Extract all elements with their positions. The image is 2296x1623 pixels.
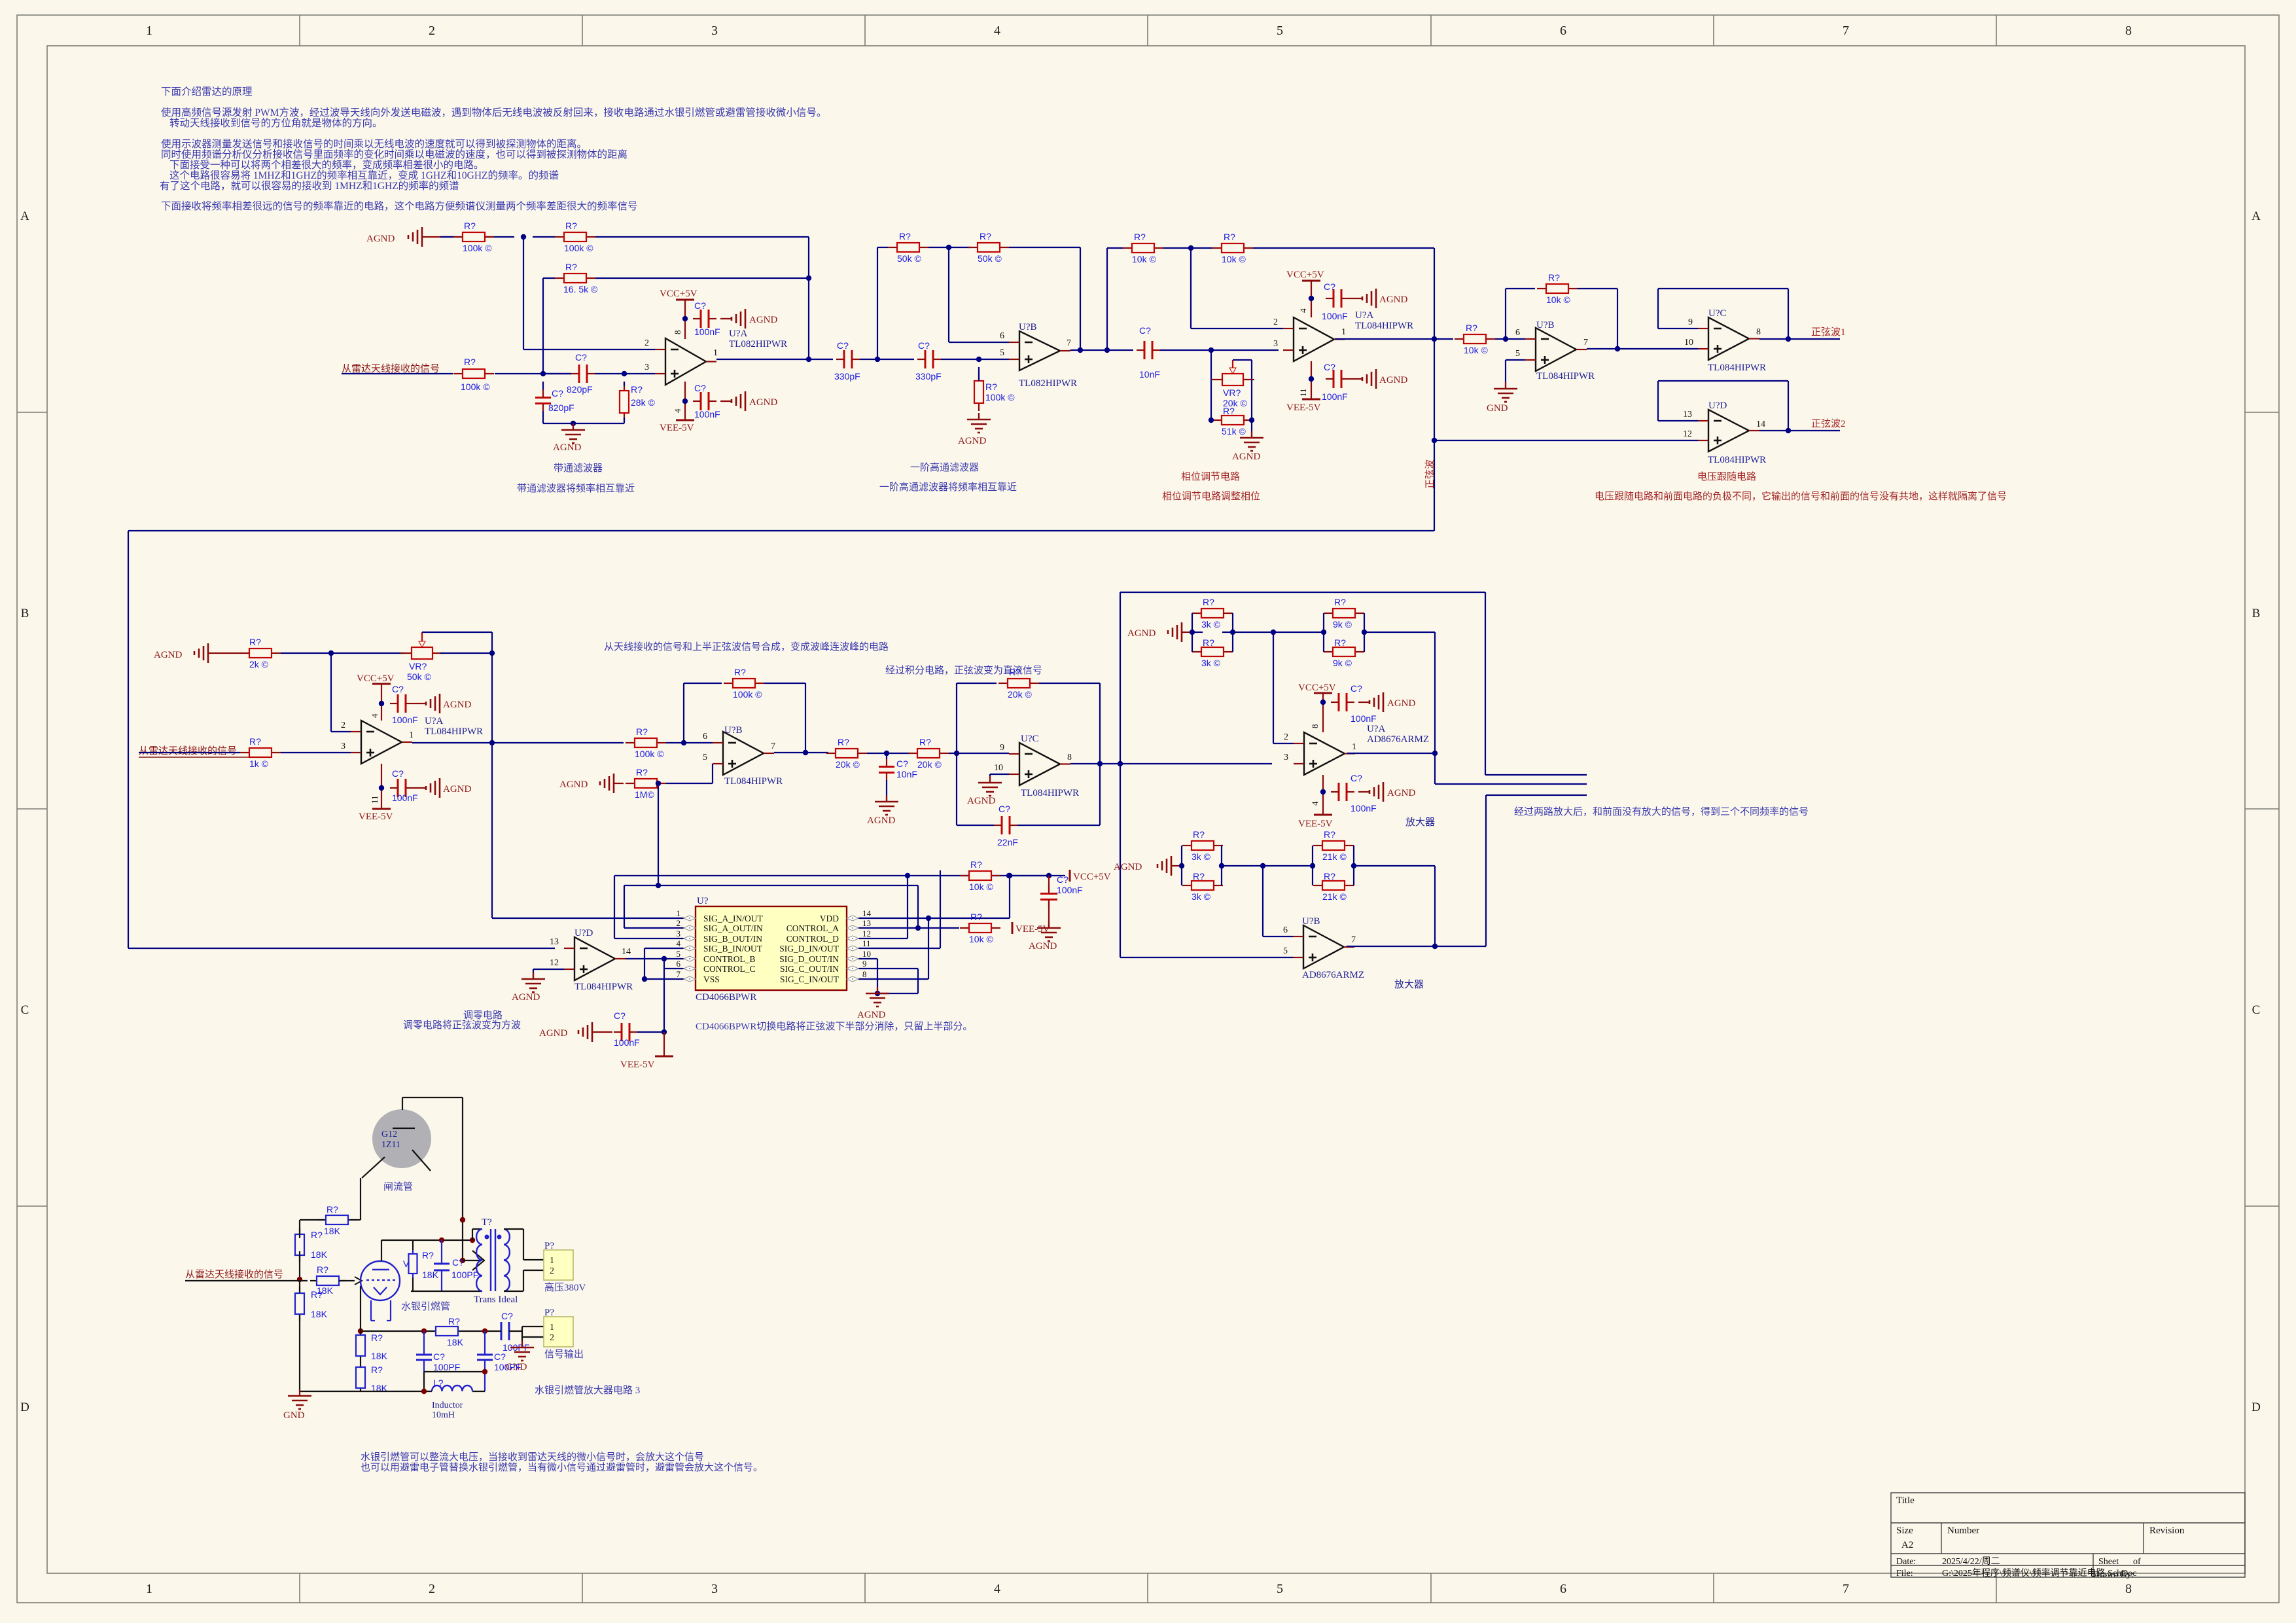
op-amp U?B TL082HIPWR	[1019, 331, 1060, 370]
svg-text:2: 2	[550, 1266, 554, 1276]
svg-text:100k ©: 100k ©	[733, 689, 762, 700]
svg-text:R?: R?	[249, 736, 261, 747]
svg-text:8: 8	[2125, 1582, 2132, 1596]
svg-text:5: 5	[677, 949, 681, 959]
svg-text:SIG_C_OUT/IN: SIG_C_OUT/IN	[780, 964, 839, 974]
svg-text:AGND: AGND	[1379, 294, 1407, 305]
svg-text:3k ©: 3k ©	[1201, 619, 1221, 630]
svg-text:100nF: 100nF	[1322, 391, 1348, 402]
svg-text:100PF: 100PF	[433, 1362, 460, 1372]
ground GND follower	[1505, 382, 1506, 389]
wire	[1107, 247, 1123, 249]
svg-text:VEE-5V: VEE-5V	[660, 423, 694, 433]
svg-text:使用示波器测量发送信号和接收信号的时间乘以无线电波的速度就可: 使用示波器测量发送信号和接收信号的时间乘以无线电波的速度就可以得到被探测物体的距…	[161, 138, 587, 150]
svg-text:2: 2	[1284, 732, 1288, 742]
wire pin6 link	[664, 968, 683, 969]
svg-text:VCC+5V: VCC+5V	[660, 289, 698, 299]
wire ground rail	[543, 423, 624, 424]
wire	[1160, 349, 1279, 351]
node junction	[1006, 873, 1012, 878]
wire	[957, 825, 994, 826]
power VEE-5V	[663, 1032, 665, 1056]
svg-text:9k ©: 9k ©	[1333, 619, 1352, 630]
svg-text:R?: R?	[985, 382, 997, 392]
border row ticks	[17, 412, 47, 413]
svg-text:8: 8	[862, 969, 867, 979]
node junction	[1209, 348, 1214, 353]
svg-text:4: 4	[673, 408, 682, 413]
svg-text:11: 11	[370, 795, 380, 804]
svg-text:AGND: AGND	[1387, 788, 1415, 798]
wire to switch net	[658, 783, 659, 885]
pin 5 CONTROL_B	[683, 958, 696, 959]
svg-text:正弦波: 正弦波	[1424, 459, 1436, 489]
svg-text:100nF: 100nF	[614, 1037, 640, 1048]
svg-text:3k ©: 3k ©	[1192, 891, 1211, 902]
svg-text:VR?: VR?	[1223, 387, 1241, 398]
svg-text:18K: 18K	[371, 1351, 388, 1361]
capacitor C? 10nF shunt	[886, 753, 887, 759]
node junction	[1320, 700, 1326, 705]
svg-text:SIG_D_OUT/IN: SIG_D_OUT/IN	[779, 954, 839, 964]
svg-text:从雷达天线接收的信号: 从雷达天线接收的信号	[342, 363, 440, 374]
svg-text:转动天线接收到信号的方位角就是物体的方向。: 转动天线接收到信号的方位角就是物体的方向。	[169, 117, 383, 129]
wire	[1210, 380, 1212, 420]
resistor R? 18K v6	[360, 1366, 361, 1368]
svg-text:D: D	[20, 1400, 29, 1414]
wire	[941, 359, 1009, 360]
pin 10 SIG_D_OUT/IN	[847, 958, 859, 959]
svg-text:CD4066BPWR切换电路将正弦波下半部分消除，只留上半部: CD4066BPWR切换电路将正弦波下半部分消除，只留上半部分。	[696, 1021, 972, 1032]
svg-text:VDD: VDD	[820, 914, 839, 923]
svg-text:R?: R?	[327, 1204, 338, 1215]
svg-text:50k ©: 50k ©	[897, 253, 921, 264]
node junction	[681, 740, 686, 745]
svg-text:下面接受一种可以将两个相差很大的频率，变成频率相差很小的电路: 下面接受一种可以将两个相差很大的频率，变成频率相差很小的电路。	[169, 159, 484, 171]
wire feedback U?D	[1658, 420, 1698, 421]
node junction	[1615, 346, 1620, 351]
svg-text:10nF: 10nF	[896, 769, 917, 779]
resistor R? 3k b	[1192, 651, 1201, 652]
svg-text:7: 7	[1067, 338, 1071, 348]
wire	[491, 653, 493, 918]
wire	[472, 1229, 473, 1240]
resistor R? 10k to VEE	[960, 927, 969, 929]
svg-text:10k ©: 10k ©	[969, 882, 993, 892]
svg-text:R?: R?	[1203, 637, 1214, 648]
svg-text:1: 1	[409, 730, 414, 740]
resistor R? 1k	[240, 752, 249, 753]
node junction	[656, 781, 661, 786]
node junction	[1320, 789, 1326, 794]
wire	[624, 382, 625, 386]
wire	[595, 236, 809, 238]
ground AGND pin10	[989, 776, 991, 783]
svg-text:100nF: 100nF	[1057, 885, 1083, 895]
ground AGND	[1369, 790, 1371, 794]
resistor R? 3k a	[1192, 613, 1201, 614]
wire pin12 from phase node	[1434, 440, 1698, 441]
svg-text:R?: R?	[919, 737, 931, 747]
wire U?B pin5 feed	[1120, 957, 1293, 958]
wire	[1163, 247, 1212, 249]
svg-text:GND: GND	[1487, 403, 1508, 414]
wire pin2	[1273, 632, 1274, 743]
svg-text:10: 10	[1684, 338, 1693, 348]
node junction	[358, 1329, 363, 1334]
svg-text:10mH: 10mH	[432, 1410, 455, 1420]
svg-text:C?: C?	[1139, 325, 1151, 336]
wire U?D out	[626, 958, 683, 959]
svg-text:100k ©: 100k ©	[564, 243, 593, 253]
svg-text:10k ©: 10k ©	[1464, 345, 1488, 355]
pin 4 SIG_B_IN/OUT	[683, 948, 696, 949]
wire	[637, 1031, 664, 1033]
svg-text:SIG_C_IN/OUT: SIG_C_IN/OUT	[780, 974, 839, 984]
wire input	[139, 752, 240, 753]
op-amp U?A TL084HIPWR sec B	[361, 721, 402, 764]
svg-text:R?: R?	[317, 1264, 328, 1275]
wire input	[185, 1280, 308, 1281]
svg-text:330pF: 330pF	[834, 371, 860, 382]
wire feedback 20k	[956, 683, 957, 825]
wire pin12 gnd	[533, 969, 564, 970]
resistor R? 100k series	[626, 742, 635, 743]
svg-text:3k ©: 3k ©	[1201, 658, 1221, 668]
svg-text:P?: P?	[544, 1308, 554, 1318]
svg-text:3: 3	[1273, 339, 1278, 349]
resistor R? 20k series 1	[826, 753, 836, 754]
svg-text:TL084HIPWR: TL084HIPWR	[425, 726, 483, 737]
ground AGND U?D	[533, 972, 534, 979]
svg-text:R?: R?	[1134, 232, 1146, 242]
wire	[666, 783, 713, 784]
resistor R? 2k	[240, 652, 249, 654]
wire	[1009, 247, 1080, 248]
svg-text:U?A: U?A	[425, 716, 443, 726]
wire pin6	[1262, 866, 1263, 936]
svg-text:使用高频信号源发射 PWM方波，经过波导天线向外发送电磁波，: 使用高频信号源发射 PWM方波，经过波导天线向外发送电磁波，遇到物体后无线电波被…	[161, 107, 826, 118]
svg-text:1: 1	[1341, 327, 1346, 337]
svg-text:18K: 18K	[324, 1226, 341, 1236]
svg-text:5: 5	[1277, 1582, 1283, 1596]
svg-text:C: C	[21, 1003, 29, 1017]
ground AGND bandpass	[573, 423, 574, 430]
svg-text:Date:: Date:	[1896, 1557, 1916, 1567]
svg-text:AGND: AGND	[1029, 941, 1057, 952]
wire	[299, 1220, 300, 1238]
svg-text:CONTROL_B: CONTROL_B	[703, 954, 756, 964]
wire	[1222, 865, 1313, 866]
wire pair3	[1181, 846, 1182, 885]
capacitor C? 100nF	[1338, 783, 1340, 801]
potentiometer VR? 50k	[412, 647, 433, 659]
wire pair1	[1192, 613, 1193, 652]
IC U? CD4066BPWR	[696, 906, 847, 990]
svg-text:从雷达天线接收的信号: 从雷达天线接收的信号	[185, 1269, 283, 1280]
wire	[978, 367, 980, 381]
svg-text:22nF: 22nF	[997, 837, 1018, 847]
svg-text:1k ©: 1k ©	[249, 758, 269, 769]
svg-text:C?: C?	[452, 1257, 464, 1268]
svg-text:Sheet: Sheet	[2098, 1557, 2119, 1567]
svg-text:C?: C?	[1324, 281, 1335, 292]
resistor R? 18K v5	[360, 1334, 361, 1336]
resistor R? 100k to ground	[978, 373, 980, 381]
svg-text:A: A	[2252, 209, 2261, 223]
svg-text:C?: C?	[1351, 773, 1362, 783]
wire ignitron cathode	[360, 1286, 361, 1391]
wire	[300, 1219, 324, 1221]
svg-text:20k ©: 20k ©	[917, 759, 942, 770]
svg-text:2: 2	[429, 24, 435, 38]
svg-text:相位调节电路: 相位调节电路	[1181, 471, 1240, 482]
wire VSS	[645, 978, 683, 980]
svg-text:2: 2	[1273, 317, 1278, 327]
svg-text:U?A: U?A	[1367, 724, 1385, 734]
pin 6 CONTROL_C	[683, 968, 696, 969]
svg-text:AGND: AGND	[553, 442, 581, 453]
svg-text:T?: T?	[482, 1217, 492, 1228]
svg-text:11: 11	[862, 938, 871, 948]
resistor R? 18K v2	[299, 1287, 300, 1293]
svg-text:100PF: 100PF	[451, 1270, 478, 1280]
svg-text:A: A	[20, 209, 29, 223]
svg-text:VEE-5V: VEE-5V	[1286, 402, 1321, 413]
svg-text:1: 1	[713, 348, 718, 358]
node junction	[379, 701, 384, 706]
svg-text:R?: R?	[464, 221, 476, 231]
capacitor C? 100nF switch supply	[1048, 876, 1050, 891]
svg-text:20k ©: 20k ©	[836, 759, 860, 770]
svg-text:VCC+5V: VCC+5V	[1286, 270, 1324, 280]
svg-text:12: 12	[550, 958, 559, 968]
wire pin11 SIG_D_IN	[859, 948, 940, 949]
capacitor C? 330pF second	[925, 350, 927, 368]
pin 11 SIG_D_IN/OUT	[847, 948, 859, 949]
svg-text:4: 4	[1298, 308, 1308, 313]
node junction	[540, 371, 546, 376]
svg-text:1: 1	[550, 1256, 554, 1266]
svg-text:2: 2	[429, 1582, 435, 1596]
pin 14 VDD	[847, 918, 859, 919]
svg-text:7: 7	[677, 969, 681, 979]
node junction	[489, 651, 495, 656]
wire pair2	[1323, 613, 1324, 652]
resistor R? 3k d	[1182, 885, 1192, 886]
svg-text:AGND: AGND	[867, 815, 895, 826]
ground AGND	[1048, 921, 1050, 928]
svg-text:R?: R?	[838, 737, 849, 747]
wire	[1190, 248, 1192, 329]
svg-text:R?: R?	[631, 384, 643, 395]
wire secondary	[504, 1228, 523, 1230]
node junction	[379, 785, 384, 791]
svg-text:R?: R?	[1224, 232, 1235, 242]
svg-text:100PF: 100PF	[494, 1362, 521, 1372]
wire anode	[402, 1097, 463, 1098]
svg-text:10k ©: 10k ©	[1222, 254, 1246, 264]
svg-text:G12: G12	[381, 1130, 397, 1139]
svg-text:AD8676ARMZ: AD8676ARMZ	[1302, 970, 1364, 980]
svg-text:C?: C?	[1057, 874, 1069, 885]
pin 13 CONTROL_A	[847, 927, 859, 929]
svg-text:11: 11	[1298, 388, 1308, 397]
svg-text:VEE-5V: VEE-5V	[359, 811, 393, 822]
capacitor C? 100nF decoupling bottom	[700, 392, 702, 410]
op-amp U?B TL084HIPWR sec B	[723, 732, 764, 775]
svg-text:100nF: 100nF	[1322, 311, 1348, 321]
svg-text:放大器: 放大器	[1405, 817, 1435, 828]
wire out3	[1486, 794, 1587, 796]
wire	[595, 373, 655, 374]
wire	[867, 753, 910, 754]
wire bottom rail	[411, 1291, 482, 1292]
svg-text:7: 7	[1351, 935, 1356, 945]
wire big loop	[128, 530, 1434, 531]
wire feedback	[1505, 289, 1506, 339]
wire	[1251, 420, 1252, 438]
wire	[1495, 338, 1525, 340]
svg-text:A2: A2	[1901, 1540, 1913, 1550]
op-amp U?A TL084HIPWR phase	[1294, 317, 1334, 361]
svg-text:VR?: VR?	[409, 661, 427, 671]
svg-text:C?: C?	[694, 383, 706, 393]
capacitor C? 100PF v blue	[441, 1240, 442, 1264]
svg-text:28k ©: 28k ©	[631, 397, 655, 408]
ground AGND	[731, 399, 733, 403]
svg-text:带通滤波器: 带通滤波器	[554, 463, 603, 474]
svg-text:1: 1	[146, 24, 152, 38]
resistor R? 100k feedback	[724, 683, 733, 684]
svg-text:9k ©: 9k ©	[1333, 658, 1352, 668]
svg-text:9: 9	[1000, 743, 1004, 753]
pin 8 SIG_C_IN/OUT	[847, 978, 859, 980]
node junction	[884, 751, 889, 756]
svg-text:8: 8	[673, 330, 682, 335]
wire pin12 CONTROL_D	[859, 938, 908, 939]
svg-text:3: 3	[645, 363, 649, 372]
svg-text:10k ©: 10k ©	[1546, 294, 1570, 305]
svg-text:TL084HIPWR: TL084HIPWR	[574, 982, 633, 992]
pin 7 VSS	[683, 978, 696, 980]
svg-text:有了这个电路，就可以很容易的接收到 1MHZ和1GHZ的频率: 有了这个电路，就可以很容易的接收到 1MHZ和1GHZ的频率的频谱	[160, 180, 459, 192]
svg-text:50k ©: 50k ©	[978, 253, 1002, 264]
svg-text:4: 4	[994, 24, 1000, 38]
node junction	[1786, 336, 1791, 342]
svg-text:R?: R?	[1334, 637, 1346, 648]
svg-text:电压跟随电路: 电压跟随电路	[1697, 471, 1756, 482]
wire	[1364, 632, 1435, 633]
svg-text:AGND: AGND	[1127, 628, 1156, 639]
ground AGND	[578, 1030, 580, 1034]
svg-text:9: 9	[1688, 317, 1693, 327]
svg-text:VEE-5V: VEE-5V	[620, 1060, 655, 1070]
wire	[1354, 865, 1435, 866]
svg-text:1M©: 1M©	[635, 789, 654, 800]
svg-text:C?: C?	[694, 300, 706, 311]
power VEE-5V switch	[1012, 922, 1014, 934]
svg-text:D: D	[2252, 1400, 2261, 1414]
svg-text:Drawn By:: Drawn By:	[2093, 1570, 2134, 1580]
svg-text:B: B	[21, 607, 29, 620]
svg-text:下面接收将频率相差很远的信号的频率靠近的电路，这个电路方便频: 下面接收将频率相差很远的信号的频率靠近的电路，这个电路方便频谱仪测量两个频率差距…	[161, 200, 638, 212]
wire	[281, 652, 404, 654]
resistor R? 10k phase 2	[1212, 247, 1222, 249]
capacitor C? 100nF decoupling top	[700, 310, 702, 328]
svg-text:B: B	[2252, 607, 2261, 620]
node junction	[682, 316, 688, 321]
node junction	[1432, 944, 1438, 949]
connector P? high voltage	[544, 1250, 573, 1280]
svg-text:4: 4	[677, 938, 681, 948]
svg-text:调零电路: 调零电路	[463, 1010, 503, 1021]
svg-text:这个电路很容易将 1MHZ和1GHZ的频率相互靠近，变成 1: 这个电路很容易将 1MHZ和1GHZ的频率相互靠近，变成 1GHZ和10GHZ的…	[169, 169, 559, 181]
svg-text:Trans Ideal: Trans Ideal	[474, 1294, 518, 1305]
svg-text:从天线接收的信号和上半正弦波信号合成，变成波峰连波峰的电路: 从天线接收的信号和上半正弦波信号合成，变成波峰连波峰的电路	[604, 641, 889, 652]
power VEE-5V AD	[1322, 775, 1324, 815]
capacitor C? 100nF	[1338, 693, 1340, 711]
wire pin14 VDD	[859, 918, 1010, 919]
svg-text:Revision: Revision	[2149, 1525, 2185, 1536]
wire	[543, 277, 555, 279]
svg-text:一阶高通滤波器: 一阶高通滤波器	[910, 462, 979, 473]
svg-text:6: 6	[677, 959, 681, 969]
wire U?A output	[716, 359, 833, 360]
capacitor C? 10nF series	[1144, 341, 1146, 359]
svg-text:20k ©: 20k ©	[1008, 689, 1032, 700]
svg-text:一阶高通滤波器将频率相互靠近: 一阶高通滤波器将频率相互靠近	[879, 482, 1017, 493]
op-amp U?D TL084HIPWR zero adjust	[574, 937, 615, 980]
resistor R? 100k feedback	[555, 236, 564, 238]
node junction	[1118, 761, 1123, 766]
svg-text:水银引燃管可以整流大电压，当接收到雷达天线的微小信号时，会放: 水银引燃管可以整流大电压，当接收到雷达天线的微小信号时，会放大这个信号	[361, 1451, 704, 1463]
svg-text:1: 1	[146, 1582, 152, 1596]
svg-text:1: 1	[677, 908, 681, 918]
wire feedback U?C	[1658, 328, 1698, 329]
svg-text:R?: R?	[1223, 406, 1235, 416]
svg-text:AGND: AGND	[154, 650, 182, 660]
svg-text:6: 6	[1000, 331, 1004, 341]
svg-text:CD4066BPWR: CD4066BPWR	[696, 992, 756, 1003]
wire	[533, 236, 555, 238]
svg-text:VCC+5V: VCC+5V	[1073, 872, 1111, 882]
resistor R? 18K v1	[299, 1228, 300, 1234]
ground GND main	[299, 1389, 300, 1396]
wire	[423, 1372, 425, 1391]
svg-text:7: 7	[1843, 1582, 1849, 1596]
wire	[1759, 430, 1840, 431]
wire output rail	[361, 1330, 436, 1332]
ground AGND	[425, 786, 427, 790]
op-amp U?C TL084HIPWR	[1708, 317, 1749, 360]
svg-text:R?: R?	[970, 912, 982, 922]
node junction	[622, 371, 627, 376]
svg-text:R?: R?	[1334, 597, 1346, 607]
svg-text:R?: R?	[448, 1316, 460, 1327]
capacitor C? 330pF first	[843, 350, 845, 368]
svg-text:100nF: 100nF	[392, 793, 418, 803]
svg-text:C?: C?	[896, 758, 908, 769]
svg-text:CONTROL_C: CONTROL_C	[703, 964, 756, 974]
svg-text:4: 4	[1310, 801, 1320, 806]
svg-text:51k ©: 51k ©	[1222, 426, 1246, 437]
svg-text:AGND: AGND	[958, 436, 986, 446]
resistor R? 100k input series	[453, 373, 463, 374]
resistor R? 16.5k feedback	[555, 277, 564, 279]
wire	[281, 752, 351, 753]
title block	[1891, 1493, 2245, 1577]
